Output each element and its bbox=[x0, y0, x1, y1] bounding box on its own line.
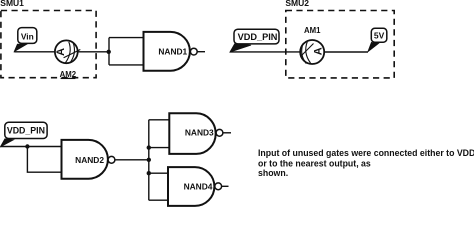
junction dot bbox=[25, 144, 29, 148]
NAND gate NAND2 bbox=[62, 140, 115, 179]
SMU1 enclosure (dashed) bbox=[1, 11, 96, 78]
svg-text:shown.: shown. bbox=[258, 168, 288, 178]
svg-text:NAND4: NAND4 bbox=[184, 182, 213, 192]
node Vin flag bbox=[14, 28, 37, 52]
wire input tie NAND3/NAND4 bbox=[149, 120, 170, 200]
ammeter AM2 bbox=[55, 40, 80, 79]
wire NAND2 output to tie bbox=[115, 159, 149, 161]
svg-text:5V: 5V bbox=[374, 30, 385, 40]
svg-text:NAND2: NAND2 bbox=[75, 155, 104, 165]
svg-text:Input of unused gates were con: Input of unused gates were connected eit… bbox=[258, 148, 474, 158]
node VDD_PIN flag (top) bbox=[230, 29, 279, 52]
wire AM1 to 5V bbox=[324, 51, 368, 53]
wire Vin to AM2 bbox=[14, 51, 55, 53]
caption note bbox=[258, 148, 474, 178]
junction dot bbox=[107, 50, 111, 54]
SMU2 enclosure (dashed) bbox=[286, 11, 394, 78]
svg-text:NAND1: NAND1 bbox=[158, 46, 187, 56]
ammeter AM1 bbox=[300, 26, 324, 64]
wire to NAND2 bottom input bbox=[27, 147, 61, 173]
junction dot bbox=[147, 171, 151, 175]
wire VDD_PIN to NAND2 top input bbox=[0, 146, 61, 148]
NAND gate NAND1 bbox=[144, 32, 206, 71]
svg-text:VDD_PIN: VDD_PIN bbox=[7, 126, 45, 136]
svg-text:A: A bbox=[55, 48, 67, 56]
wire VDD_PIN to AM1 bbox=[230, 51, 300, 53]
NAND gate NAND4 bbox=[168, 167, 229, 206]
node 5V flag bbox=[368, 28, 387, 51]
svg-text:AM1: AM1 bbox=[304, 26, 321, 35]
NAND gate NAND3 bbox=[169, 113, 231, 154]
wire input tie NAND1 bbox=[109, 38, 144, 65]
svg-text:NAND3: NAND3 bbox=[185, 127, 214, 137]
svg-text:SMU1: SMU1 bbox=[0, 0, 24, 8]
wire AM2 to junction bbox=[78, 51, 109, 53]
node VDD_PIN flag (bottom) bbox=[0, 122, 47, 147]
svg-text:SMU2: SMU2 bbox=[285, 0, 309, 8]
junction dot bbox=[147, 158, 151, 162]
svg-text:VDD_PIN: VDD_PIN bbox=[238, 32, 278, 42]
svg-text:Vin: Vin bbox=[21, 31, 34, 41]
svg-text:A: A bbox=[312, 47, 324, 55]
junction dot bbox=[147, 145, 151, 149]
